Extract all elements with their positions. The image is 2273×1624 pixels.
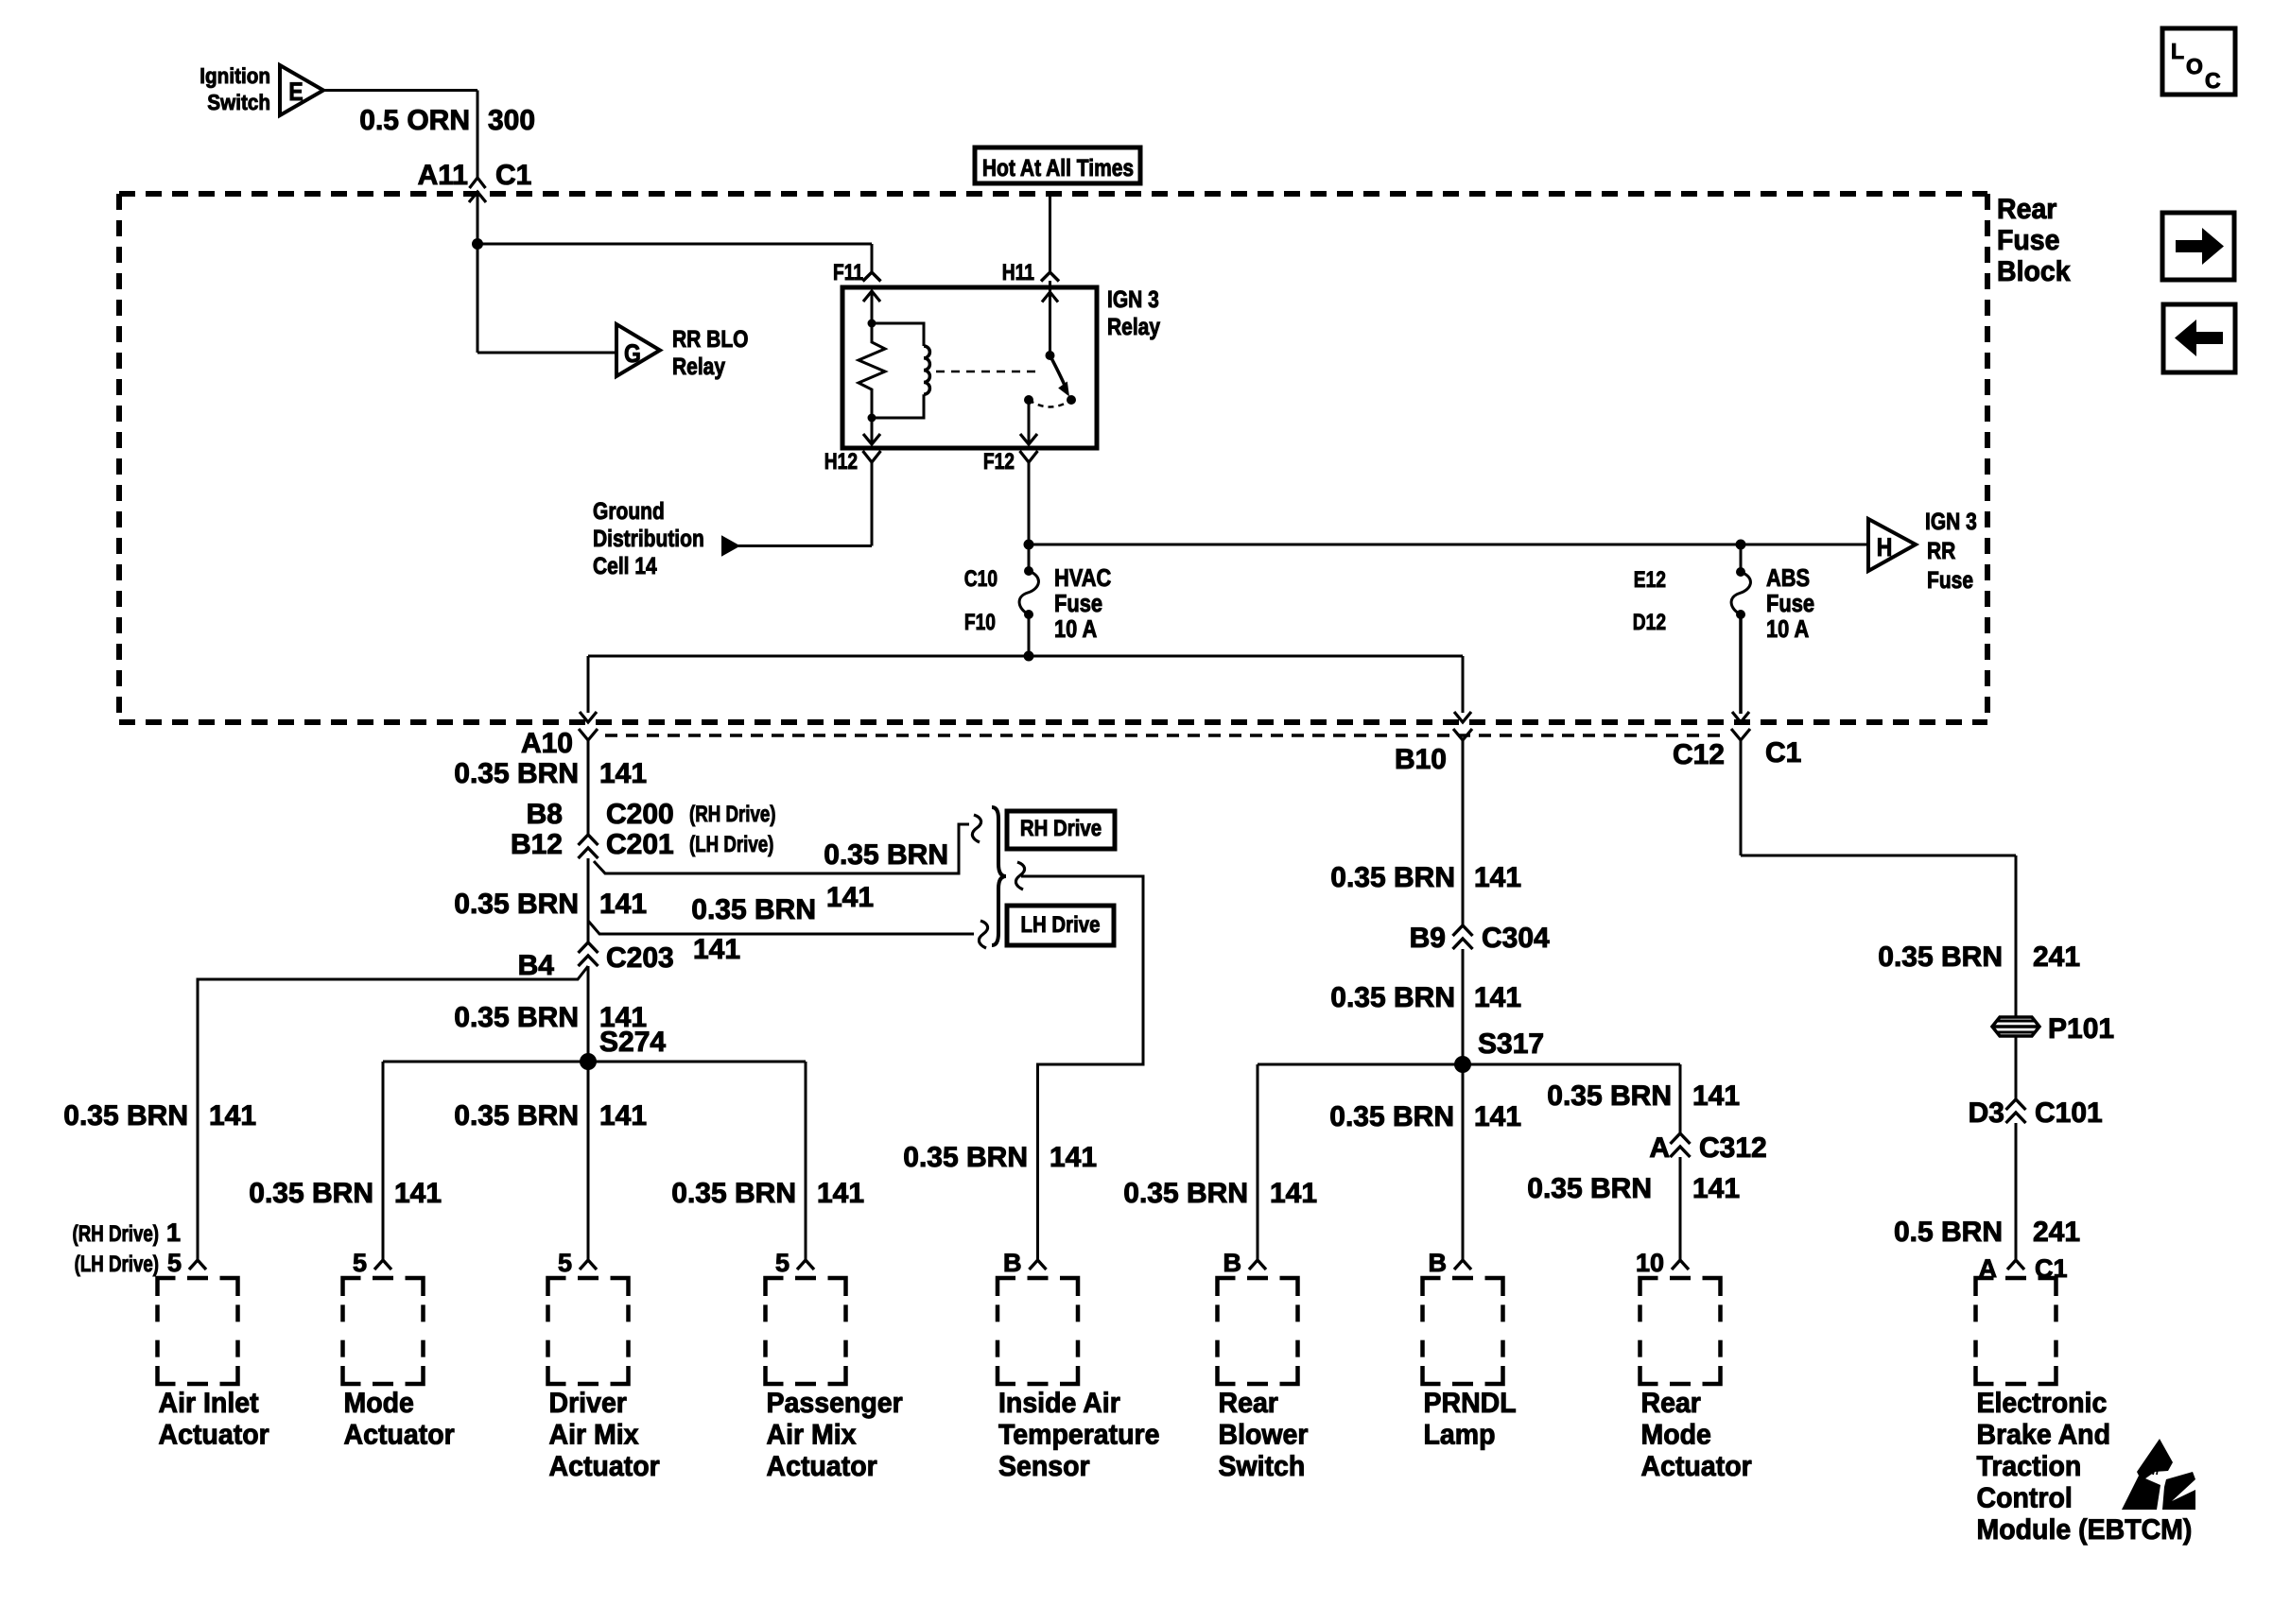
label 0.5 ORN 300 [359,105,535,136]
svg-text:141: 141 [1692,1173,1740,1204]
svg-text:IGN 3: IGN 3 [1107,286,1159,313]
svg-text:C1: C1 [1765,737,1801,769]
relay linkage dashed line [936,371,1040,373]
svg-text:PRNDL: PRNDL [1424,1388,1517,1419]
component Rear Blower Switch [1218,1249,1309,1482]
label 0.35 BRN 141 (Inside Air wire) [903,1142,1097,1173]
svg-text:0.35 BRN: 0.35 BRN [903,1142,1028,1173]
wire junction to H triangle [1029,544,1868,546]
LH Drive boxed label [1007,906,1114,945]
label 0.35 BRN 141 (Passenger wire) [671,1178,864,1209]
wire to RH Drive brace [594,815,981,873]
svg-text:Blower: Blower [1219,1420,1309,1451]
svg-text:141: 141 [1270,1178,1317,1209]
svg-text:Air Inlet: Air Inlet [159,1388,259,1419]
label 0.35 BRN 141 (Air Inlet wire) [63,1100,256,1132]
off-page triangle G (RR BLO Relay) [616,324,749,380]
svg-text:O: O [2186,54,2203,78]
relay coil branch: arrows, resistor, coil [859,291,929,444]
svg-text:Electronic: Electronic [1977,1388,2108,1419]
svg-text:0.35 BRN: 0.35 BRN [824,839,948,871]
label 0.35 BRN 141 (above S317) [1330,982,1521,1013]
svg-text:141: 141 [1474,862,1521,893]
svg-text:Passenger: Passenger [767,1388,904,1419]
svg-text:300: 300 [488,105,535,136]
svg-text:RR: RR [1927,538,1955,564]
component Air Inlet Actuator [158,1249,270,1451]
svg-text:D12: D12 [1633,610,1666,635]
svg-text:(LH Drive): (LH Drive) [689,832,773,857]
svg-text:H11: H11 [1002,260,1034,285]
svg-text:HVAC: HVAC [1054,563,1111,592]
svg-text:C: C [2205,68,2221,93]
pin labels (RH Drive) 1 / (LH Drive) 5 [73,1218,182,1277]
svg-text:0.35 BRN: 0.35 BRN [1330,862,1455,893]
svg-text:141: 141 [1692,1080,1740,1112]
svg-text:141: 141 [599,758,647,789]
svg-text:Fuse: Fuse [1766,589,1814,617]
svg-text:S317: S317 [1478,1028,1544,1060]
label 0.35 BRN 141 (B10) [1330,862,1521,893]
svg-text:F12: F12 [983,449,1015,475]
svg-text:LH Drive: LH Drive [1021,912,1101,938]
wire P101 to D3 [2015,1036,2018,1099]
svg-text:Rear: Rear [1641,1388,1702,1419]
label 0.35 BRN 141 (A10) [454,758,647,789]
svg-text:E: E [288,78,303,106]
svg-text:241: 241 [2033,942,2080,973]
svg-text:B10: B10 [1395,744,1447,775]
svg-text:Fuse: Fuse [1927,567,1973,594]
wire junction to RR BLO relay triangle [477,352,616,354]
svg-text:141: 141 [1050,1142,1097,1173]
svg-text:B8: B8 [527,799,563,830]
svg-text:Mode: Mode [1641,1420,1711,1451]
connector A10 [521,728,598,835]
svg-text:Inside Air: Inside Air [998,1388,1120,1419]
svg-text:A: A [1649,1132,1670,1164]
svg-text:B12: B12 [511,829,563,860]
label 0.35 BRN 241 [1878,942,2080,973]
svg-text:Actuator: Actuator [159,1420,270,1451]
svg-text:C312: C312 [1699,1132,1767,1164]
svg-text:RH Drive: RH Drive [1020,816,1102,841]
svg-text:Block: Block [1997,256,2071,287]
ESD sensitive device symbol [2122,1439,2195,1510]
svg-text:A11: A11 [418,160,468,191]
svg-text:B: B [1429,1249,1448,1277]
svg-text:0.35 BRN: 0.35 BRN [63,1100,188,1132]
svg-text:0.35 BRN: 0.35 BRN [454,889,579,920]
svg-text:10 A: 10 A [1054,614,1097,643]
boxed label Hot At All Times [975,147,1140,183]
svg-text:0.35 BRN: 0.35 BRN [1123,1178,1248,1209]
connector A / C312 [1649,1132,1766,1260]
ground distribution pointer [593,498,738,579]
label 0.35 BRN (RH wire) [824,839,948,871]
splice S317 [1454,1028,1544,1073]
svg-text:IGN 3: IGN 3 [1925,509,1977,535]
pin H12 [824,449,881,475]
svg-text:0.35 BRN: 0.35 BRN [671,1178,796,1209]
svg-text:Ignition: Ignition [200,63,270,88]
svg-text:Control: Control [1977,1483,2073,1514]
svg-text:0.35 BRN: 0.35 BRN [454,758,579,789]
svg-text:Brake And: Brake And [1977,1420,2111,1451]
svg-text:0.5 ORN: 0.5 ORN [359,105,470,136]
connector B8/B12 C200/C201 [511,799,776,942]
svg-text:RR BLO: RR BLO [672,326,749,353]
connector C1 fine dashed line [605,734,1726,736]
wire ignition switch to A11 [323,91,477,180]
svg-text:Air Mix: Air Mix [549,1420,639,1451]
svg-text:0.35 BRN: 0.35 BRN [691,894,816,925]
svg-text:H: H [1877,533,1893,561]
svg-text:0.35 BRN: 0.35 BRN [1547,1080,1672,1112]
component Passenger Air Mix Actuator [766,1249,904,1482]
svg-text:0.35 BRN: 0.35 BRN [1329,1101,1454,1132]
junction node below A11 [472,238,483,353]
svg-text:141: 141 [693,934,740,965]
svg-text:H12: H12 [824,449,858,475]
component Electronic Brake And Traction Control Module (EBTCM) [1976,1260,2193,1546]
exit A10 arrow [580,656,597,722]
svg-text:Fuse: Fuse [1997,225,2060,256]
svg-text:0.35 BRN: 0.35 BRN [1878,942,2003,973]
svg-text:C201: C201 [606,829,674,860]
svg-text:C12: C12 [1673,739,1725,770]
svg-text:141: 141 [1474,1101,1521,1132]
svg-text:Fuse: Fuse [1054,589,1102,617]
svg-text:5: 5 [167,1249,182,1277]
pin F11 [833,260,881,285]
exit C12 arrow [1732,712,1749,722]
svg-text:Driver: Driver [549,1388,628,1419]
svg-text:Traction: Traction [1977,1451,2082,1482]
svg-text:C101: C101 [2035,1097,2103,1129]
label 0.35 BRN 141 (Driver wire) [454,1100,647,1132]
RH Drive boxed label [1007,811,1115,849]
svg-text:Relay: Relay [672,354,725,380]
svg-text:Distribution: Distribution [593,526,704,552]
svg-text:G: G [624,339,641,368]
svg-text:0.35 BRN: 0.35 BRN [454,1100,579,1132]
svg-text:0.35 BRN: 0.35 BRN [1330,982,1455,1013]
forward arrow box [2162,213,2234,280]
svg-text:B4: B4 [518,950,555,981]
svg-text:5: 5 [353,1249,367,1277]
pin H11 [1002,260,1059,285]
svg-text:C200: C200 [606,799,674,830]
svg-text:141: 141 [209,1100,256,1132]
svg-text:Temperature: Temperature [998,1420,1160,1451]
svg-text:141: 141 [817,1178,864,1209]
svg-text:F11: F11 [833,260,863,285]
svg-text:Rear: Rear [1219,1388,1279,1419]
component Mode Actuator [343,1249,456,1451]
connector D3 / C101 [1969,1097,2103,1260]
ABS fuse E12-D12 [1633,544,1814,714]
connector B9 / C304 [1410,923,1550,1064]
svg-text:B: B [1003,1249,1022,1277]
component PRNDL Lamp [1423,1249,1517,1451]
svg-text:141: 141 [599,1100,647,1132]
svg-text:A10: A10 [521,728,573,759]
bus wire A10 to B10 [588,655,1463,658]
svg-text:10 A: 10 A [1766,614,1809,643]
off-page triangle H (IGN 3 RR Fuse) [1868,509,1977,594]
svg-text:C1: C1 [495,160,531,191]
svg-text:Hot At All Times: Hot At All Times [982,155,1134,181]
svg-text:D3: D3 [1969,1097,2004,1129]
svg-text:Module (EBTCM): Module (EBTCM) [1977,1514,2193,1546]
svg-text:Actuator: Actuator [1641,1451,1753,1482]
svg-text:1: 1 [166,1218,181,1247]
svg-text:E12: E12 [1634,567,1666,593]
svg-text:0.35 BRN: 0.35 BRN [1527,1173,1652,1204]
label 0.35 BRN 141 (above S274) [454,1002,647,1033]
exit B10 arrow [1454,656,1471,722]
wire F12 down to junction [1024,462,1034,550]
svg-text:C304: C304 [1482,923,1550,954]
svg-text:0.35 BRN: 0.35 BRN [454,1002,579,1033]
svg-text:C10: C10 [964,566,998,592]
svg-text:5: 5 [558,1249,572,1277]
svg-text:141: 141 [394,1178,442,1209]
svg-text:Sensor: Sensor [998,1451,1090,1482]
component Inside Air Temperature Sensor [998,1249,1160,1482]
svg-text:0.35 BRN: 0.35 BRN [249,1178,373,1209]
label 0.35 BRN 141 (Rear Mode upper) [1547,1080,1740,1112]
svg-text:Lamp: Lamp [1424,1420,1496,1451]
svg-text:Actuator: Actuator [767,1451,878,1482]
back arrow box [2163,304,2235,372]
relay switch [1020,281,1076,444]
wire to Air Inlet Actuator [198,966,588,1260]
svg-text:P101: P101 [2048,1013,2114,1045]
svg-text:(RH Drive): (RH Drive) [73,1221,160,1247]
relay box IGN 3 Relay [842,286,1160,448]
svg-text:Cell 14: Cell 14 [593,553,657,579]
label 0.35 BRN 141 (Rear Blower wire) [1123,1178,1317,1209]
svg-text:5: 5 [775,1249,789,1277]
label 0.35 BRN 141 (Rear Mode lower) [1527,1173,1740,1204]
pass-through grommet P101 [1992,1013,2114,1045]
wire Hot At All Times to H11 [1049,195,1051,272]
svg-text:Switch: Switch [207,90,270,114]
splice S274 [580,1027,666,1070]
label 0.35 BRN 141 (below B12) [454,889,647,920]
connector A / C1 (EBTCM) [1979,1254,2068,1283]
svg-text:B: B [1223,1249,1242,1277]
connector C12 / C1 [1673,729,1801,855]
svg-text:F10: F10 [964,610,996,635]
svg-text:Relay: Relay [1107,314,1160,340]
svg-text:241: 241 [2033,1217,2080,1248]
wire brace to Inside Air Temperature Sensor [1015,862,1143,1260]
label 0.35 BRN 141 (Mode wire) [249,1178,442,1209]
wire junction to F11 [477,244,872,272]
svg-text:L: L [2171,39,2184,63]
pin F12 [983,449,1038,475]
component Rear Mode Actuator [1636,1249,1752,1482]
svg-text:141: 141 [599,889,647,920]
svg-text:(RH Drive): (RH Drive) [689,802,776,827]
junction to ABS fuse [1736,540,1746,550]
svg-text:10: 10 [1636,1249,1664,1277]
off-page triangle E (Ignition Switch) [200,63,323,115]
Rear Fuse Block dashed border [119,194,1987,722]
svg-text:0.5 BRN: 0.5 BRN [1894,1217,2003,1248]
svg-text:Air Mix: Air Mix [767,1420,857,1451]
svg-text:Mode: Mode [344,1388,414,1419]
HVAC fuse C10-F10 [964,544,1112,656]
svg-text:S274: S274 [599,1027,666,1058]
component Driver Air Mix Actuator [548,1249,661,1482]
svg-text:Actuator: Actuator [344,1420,456,1451]
connector B10 [1395,729,1472,925]
wire H12 to ground pointer [737,462,872,546]
svg-text:(LH Drive): (LH Drive) [75,1252,159,1277]
S274 branch wires [383,1062,806,1260]
label 0.35 BRN 141 (PRNDL wire) [1329,1101,1521,1132]
S317 branch wires [1258,1064,1680,1260]
connector B4 / C203 [518,934,740,1062]
big brace [992,807,1006,945]
LOC legend box [2162,28,2235,95]
wire to LH Drive brace [588,921,988,948]
connector A11 / C1 [418,160,532,244]
svg-text:Rear: Rear [1997,194,2057,225]
junction below HVAC fuse [1024,651,1034,662]
Rear Fuse Block label [1997,194,2071,287]
wire C12 to EBTCM column [1741,855,2016,1017]
svg-text:Ground: Ground [593,498,665,525]
svg-text:B9: B9 [1410,923,1446,954]
svg-text:141: 141 [1474,982,1521,1013]
svg-text:Switch: Switch [1219,1451,1306,1482]
svg-text:C203: C203 [606,942,674,974]
label 0.5 BRN 241 [1894,1217,2080,1248]
svg-text:Actuator: Actuator [549,1451,661,1482]
label 0.35 BRN (LH wire) [691,894,816,925]
svg-text:ABS: ABS [1766,563,1810,592]
label 141 (RH wire) [826,882,874,913]
svg-text:141: 141 [826,882,874,913]
